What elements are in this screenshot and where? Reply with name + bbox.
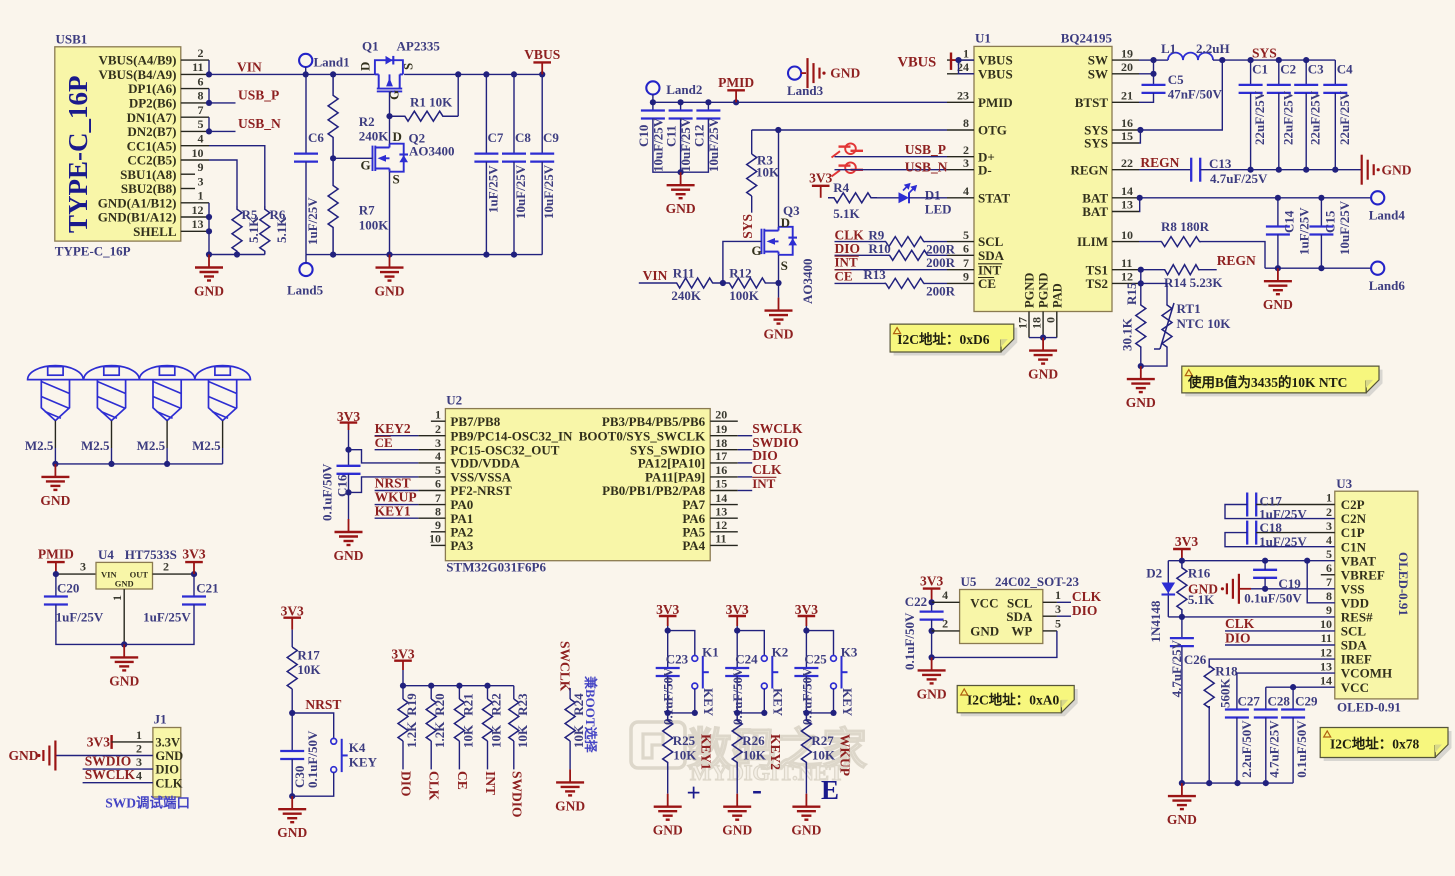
svg-text:KEY: KEY xyxy=(349,755,378,770)
svg-text:1: 1 xyxy=(1055,588,1061,602)
svg-text:3V3: 3V3 xyxy=(726,602,749,617)
svg-text:4: 4 xyxy=(198,132,204,146)
resistor R25 10K xyxy=(663,713,673,770)
wire D1 to STAT xyxy=(877,197,899,199)
svg-text:S: S xyxy=(781,258,788,273)
wire NRST xyxy=(375,490,419,492)
wire Q1 gate to R1 xyxy=(389,92,391,116)
svg-text:10K: 10K xyxy=(297,662,321,677)
ground GND below C16 xyxy=(348,519,350,532)
svg-text:DIO: DIO xyxy=(1225,630,1251,645)
connector USB1 TYPE-C_16P xyxy=(55,47,181,241)
svg-text:3: 3 xyxy=(80,560,86,574)
svg-text:M2.5: M2.5 xyxy=(81,438,110,453)
svg-text:CLK: CLK xyxy=(1072,589,1102,604)
wire U4 GND pin xyxy=(123,589,125,644)
ground GND of USB1 xyxy=(208,255,210,268)
svg-text:R1 10K: R1 10K xyxy=(410,95,453,110)
svg-text:15: 15 xyxy=(715,477,727,491)
ground side at VSS xyxy=(1265,588,1335,590)
capacitor C14 1uF/25V xyxy=(1275,195,1281,201)
connector J1 SWD xyxy=(153,728,181,798)
resistor R26 10K xyxy=(732,713,742,770)
capacitor C22 0.1uF/50V xyxy=(931,602,933,611)
svg-text:VCC: VCC xyxy=(1341,680,1369,695)
svg-text:D: D xyxy=(781,215,790,230)
svg-text:GND: GND xyxy=(194,284,224,299)
svg-text:GND: GND xyxy=(115,579,134,589)
wire USB_P xyxy=(209,102,236,104)
svg-text:R4: R4 xyxy=(833,180,849,195)
resistor R4 5.1K xyxy=(828,193,877,203)
svg-text:L1: L1 xyxy=(1161,41,1176,56)
svg-text:K4: K4 xyxy=(349,740,366,755)
svg-text:WP: WP xyxy=(1011,624,1032,639)
svg-text:VBUS: VBUS xyxy=(898,55,937,71)
svg-text:3: 3 xyxy=(1055,602,1061,616)
svg-text:22: 22 xyxy=(1121,156,1133,170)
svg-text:PAD: PAD xyxy=(1050,283,1064,308)
svg-text:VDD: VDD xyxy=(1341,595,1369,610)
svg-text:C1P: C1P xyxy=(1341,525,1365,540)
svg-text:C7: C7 xyxy=(488,130,504,145)
svg-text:GND: GND xyxy=(764,327,794,342)
svg-text:REGN: REGN xyxy=(1070,162,1108,177)
capacitor C9 10uF/25V xyxy=(539,71,545,77)
wire USB gnd rail xyxy=(209,254,265,256)
svg-text:GND: GND xyxy=(155,749,183,763)
key K2 xyxy=(737,631,764,656)
svg-text:8: 8 xyxy=(963,116,969,130)
svg-text:VIN: VIN xyxy=(643,268,668,283)
wire VCC net xyxy=(1266,686,1335,688)
wire CC2 to R5 xyxy=(209,160,237,206)
svg-text:R19: R19 xyxy=(404,693,419,716)
U1 pin 24 VBUS xyxy=(947,73,974,75)
svg-text:C20: C20 xyxy=(57,581,79,596)
U1 pin 7 INT xyxy=(947,269,974,271)
svg-text:47nF/50V: 47nF/50V xyxy=(1168,87,1223,102)
wire DIO with resistor R10 200R xyxy=(835,254,890,256)
transistor Q1 AP2335 xyxy=(375,56,403,92)
svg-text:18: 18 xyxy=(715,436,727,450)
svg-text:RT1: RT1 xyxy=(1177,301,1201,316)
svg-text:3V3: 3V3 xyxy=(795,602,818,617)
svg-text:PGND: PGND xyxy=(1023,273,1037,308)
svg-text:RES#: RES# xyxy=(1341,610,1373,625)
diode D2 1N4148 xyxy=(1167,561,1169,617)
svg-text:PF2-NRST: PF2-NRST xyxy=(450,483,512,498)
resistor R16 5.1K xyxy=(1177,561,1187,617)
note I2C address 0xD6 xyxy=(894,328,1018,356)
resistor R7 100K xyxy=(328,158,338,254)
svg-text:OTG: OTG xyxy=(978,123,1007,138)
svg-text:D1: D1 xyxy=(925,188,941,203)
svg-text:4: 4 xyxy=(136,769,142,783)
svg-text:3V3: 3V3 xyxy=(809,170,832,185)
svg-text:SW: SW xyxy=(1088,66,1108,81)
resistor R23 10K to SWDIO xyxy=(513,686,515,699)
capacitor C3 22uF/25V xyxy=(1303,57,1309,63)
wire ground rail with Land6 xyxy=(1265,267,1371,269)
svg-text:VCC: VCC xyxy=(970,595,998,610)
svg-text:1uF/25V: 1uF/25V xyxy=(1297,207,1312,255)
ground GND below C22 xyxy=(931,657,933,670)
svg-text:1: 1 xyxy=(963,46,969,60)
wire J1 GND xyxy=(55,755,152,757)
wire BAT to Land4 xyxy=(1139,197,1371,199)
note I2C address 0x78 xyxy=(1324,731,1452,761)
wire VIN divider xyxy=(639,282,677,284)
wire VSS to C16 gnd xyxy=(349,477,419,493)
svg-text:GND: GND xyxy=(1167,812,1197,827)
land Land2 xyxy=(646,81,659,94)
svg-text:GND: GND xyxy=(277,825,307,840)
svg-text:5: 5 xyxy=(1055,617,1061,631)
U1 pin 20 SW xyxy=(1112,73,1139,75)
mounting hole M2.5 #4 xyxy=(195,366,251,380)
svg-text:SHELL: SHELL xyxy=(133,224,177,239)
capacitor C23 0.1uF/50V xyxy=(667,631,669,668)
svg-text:2: 2 xyxy=(136,742,142,756)
svg-text:NRST: NRST xyxy=(305,697,341,712)
transistor Q2 AO3400 xyxy=(373,144,409,172)
wire bottom ground rail xyxy=(306,254,542,256)
svg-text:PB7/PB8: PB7/PB8 xyxy=(450,414,500,429)
svg-text:9: 9 xyxy=(1326,603,1332,617)
wire WKUP xyxy=(375,504,419,506)
svg-text:2.2uH: 2.2uH xyxy=(1196,41,1230,56)
ground GND below U1 xyxy=(1042,338,1044,351)
svg-text:5: 5 xyxy=(435,463,441,477)
svg-text:REGN: REGN xyxy=(1140,155,1179,170)
note NTC B value xyxy=(1185,370,1382,397)
capacitor C25 0.1uF/50V xyxy=(805,631,807,668)
capacitor C16 0.1uF/50V xyxy=(337,465,361,467)
svg-text:3V3: 3V3 xyxy=(920,574,943,589)
wire CLK net xyxy=(738,476,752,478)
svg-text:5: 5 xyxy=(963,228,969,242)
svg-text:R7: R7 xyxy=(359,203,375,218)
watermark xyxy=(631,722,867,785)
capacitor C8 10uF/25V xyxy=(511,71,517,77)
svg-text:7: 7 xyxy=(198,103,204,117)
transistor Q3 AO3400 xyxy=(762,227,798,255)
svg-text:SWCLK: SWCLK xyxy=(558,641,573,692)
svg-text:11: 11 xyxy=(715,532,726,546)
land Land6 xyxy=(1371,262,1384,275)
svg-text:PGND: PGND xyxy=(1037,273,1051,308)
capacitor C10 10uF/25V xyxy=(652,102,654,110)
svg-text:4: 4 xyxy=(942,588,948,602)
wire SYS cap ground rail xyxy=(1200,169,1362,171)
wire CC1 to R6 xyxy=(209,146,265,206)
svg-text:C8: C8 xyxy=(515,130,531,145)
svg-text:C28: C28 xyxy=(1268,694,1291,709)
wire SW pins join xyxy=(1139,59,1154,61)
svg-text:3V3: 3V3 xyxy=(182,547,205,562)
U1 pin 14 BAT xyxy=(1112,197,1139,199)
svg-text:13: 13 xyxy=(1121,198,1133,212)
svg-text:CC2(B5): CC2(B5) xyxy=(127,153,176,168)
svg-text:4: 4 xyxy=(435,449,441,463)
svg-text:SBU1(A8): SBU1(A8) xyxy=(120,167,176,182)
svg-text:AO3400: AO3400 xyxy=(409,143,455,158)
svg-text:Land4: Land4 xyxy=(1369,208,1406,223)
mounting hole M2.5 #3 xyxy=(139,366,195,380)
svg-text:Land1: Land1 xyxy=(314,55,350,70)
power flag 3V3 at U4 xyxy=(193,562,195,574)
svg-text:M2.5: M2.5 xyxy=(25,438,54,453)
wire SYS cap rail top xyxy=(1222,59,1335,61)
svg-text:C1: C1 xyxy=(1252,62,1268,77)
svg-text:R21: R21 xyxy=(460,693,475,715)
jumper net-tie USB_N xyxy=(832,162,864,176)
svg-text:10: 10 xyxy=(1121,228,1133,242)
resistor R17 10K xyxy=(291,630,293,647)
svg-text:SDA: SDA xyxy=(978,248,1005,263)
svg-text:2: 2 xyxy=(163,560,169,574)
svg-text:30.1K: 30.1K xyxy=(1119,317,1134,351)
svg-text:R25: R25 xyxy=(673,733,696,748)
wire VIN net xyxy=(209,73,375,75)
wire Q1 source to VBUS rail xyxy=(404,73,542,75)
svg-text:PA3: PA3 xyxy=(450,538,473,553)
svg-text:6: 6 xyxy=(1326,561,1332,575)
wire SDA DIO xyxy=(1225,644,1335,646)
svg-text:AP2335: AP2335 xyxy=(397,39,441,54)
wire RES# net xyxy=(1168,616,1335,618)
ground GND below C30 xyxy=(291,796,293,809)
svg-text:S: S xyxy=(401,63,416,70)
svg-text:GND(A1/B12): GND(A1/B12) xyxy=(98,195,177,210)
svg-text:R14 5.23K: R14 5.23K xyxy=(1164,275,1223,290)
svg-text:9: 9 xyxy=(963,270,969,284)
svg-text:Q1: Q1 xyxy=(362,39,379,54)
svg-text:3V3: 3V3 xyxy=(391,647,414,662)
svg-text:VIN: VIN xyxy=(237,60,262,75)
power flag VBUS xyxy=(541,62,543,74)
svg-text:Land5: Land5 xyxy=(287,283,324,298)
U1 pin 15 SYS xyxy=(1112,142,1139,144)
svg-text:LED: LED xyxy=(925,202,952,217)
svg-text:5: 5 xyxy=(1326,547,1332,561)
svg-text:KEY: KEY xyxy=(771,688,786,717)
svg-text:R2: R2 xyxy=(359,114,375,129)
capacitor C21 1uF/25V xyxy=(193,574,195,596)
ground GND below C14 xyxy=(1277,268,1279,281)
resistor R12 100K xyxy=(729,278,765,288)
capacitor C1 22uF/25V xyxy=(1248,57,1254,63)
capacitor C12 10uF/25V xyxy=(707,102,709,110)
wire KEY1 xyxy=(375,517,419,519)
wire D- USB_N xyxy=(835,169,948,171)
wire pullup rail xyxy=(403,685,514,687)
svg-text:E: E xyxy=(821,775,839,805)
wire WP loop xyxy=(1043,630,1057,632)
svg-text:2: 2 xyxy=(198,46,204,60)
inductor L1 2.2uH xyxy=(1154,59,1169,61)
svg-text:STAT: STAT xyxy=(978,190,1010,205)
wire SWDIO to J1 xyxy=(83,768,153,770)
svg-text:GND: GND xyxy=(1188,581,1218,596)
svg-text:SWCLK: SWCLK xyxy=(752,421,803,436)
svg-text:11: 11 xyxy=(1121,256,1132,270)
svg-text:NTC 10K: NTC 10K xyxy=(1177,316,1232,331)
svg-text:DP1(A6): DP1(A6) xyxy=(128,81,176,96)
svg-text:23: 23 xyxy=(957,89,969,103)
svg-text:1.2K: 1.2K xyxy=(432,721,447,748)
svg-text:SYS: SYS xyxy=(1252,46,1277,61)
wire pin2 to VIN net xyxy=(208,60,210,74)
svg-text:21: 21 xyxy=(1121,89,1133,103)
svg-text:C23: C23 xyxy=(666,652,689,667)
svg-text:M2.5: M2.5 xyxy=(137,438,166,453)
svg-text:16: 16 xyxy=(715,463,727,477)
svg-text:VBUS(A4/B9): VBUS(A4/B9) xyxy=(98,53,176,68)
thermistor RT1 NTC 10K xyxy=(1166,283,1168,304)
svg-text:14: 14 xyxy=(1121,184,1133,198)
svg-text:4: 4 xyxy=(1326,533,1332,547)
svg-text:R23: R23 xyxy=(515,693,530,716)
wire Q2 drain xyxy=(389,116,391,144)
svg-text:3V3: 3V3 xyxy=(1175,534,1198,549)
U1 pin 10 ILIM xyxy=(1112,241,1139,243)
svg-text:12: 12 xyxy=(1121,270,1133,284)
wire pin6 to USB_P xyxy=(208,89,210,103)
wire KEY2 xyxy=(375,435,419,437)
net NRST node xyxy=(289,710,295,716)
wire 3V3 to VDD and C16 xyxy=(348,430,350,466)
svg-text:9: 9 xyxy=(198,160,204,174)
capacitor C4 22uF/25V xyxy=(1334,60,1336,85)
svg-text:INT: INT xyxy=(483,771,498,795)
svg-text:240K: 240K xyxy=(671,288,702,303)
IC U3 OLED-0.91 xyxy=(1335,491,1418,699)
svg-text:WKUP: WKUP xyxy=(837,734,852,776)
svg-text:GND: GND xyxy=(9,748,39,763)
wire INT net xyxy=(738,490,752,492)
svg-text:USB_P: USB_P xyxy=(905,142,946,157)
svg-text:KEY1: KEY1 xyxy=(699,734,714,770)
svg-text:14: 14 xyxy=(1320,673,1332,687)
jumper net-tie USB_P xyxy=(832,143,864,157)
resistor R1 10K xyxy=(390,111,459,121)
svg-text:19: 19 xyxy=(1121,46,1133,60)
LED D1 xyxy=(899,192,910,203)
svg-text:HT7533S: HT7533S xyxy=(125,547,177,562)
svg-text:KEY2: KEY2 xyxy=(375,421,411,436)
svg-text:兼BOOT选择: 兼BOOT选择 xyxy=(583,676,598,754)
wire key junction xyxy=(737,712,764,714)
wire SCL CLK xyxy=(1225,630,1335,632)
svg-text:SDA: SDA xyxy=(1006,609,1033,624)
ground GND below C11 xyxy=(680,172,682,185)
svg-text:7: 7 xyxy=(435,491,441,505)
svg-text:8: 8 xyxy=(198,89,204,103)
wire pin7 to USB_N xyxy=(208,117,210,131)
svg-text:I2C地址：0xD6: I2C地址：0xD6 xyxy=(897,331,990,347)
capacitor C15 10uF/25V xyxy=(1318,195,1324,201)
U3 pin6 VBREF stub xyxy=(1321,574,1335,576)
svg-text:GND: GND xyxy=(109,673,139,688)
svg-text:22uF/25V: 22uF/25V xyxy=(1280,90,1295,145)
svg-text:C11: C11 xyxy=(664,125,679,147)
svg-text:8: 8 xyxy=(435,504,441,518)
svg-text:SYS: SYS xyxy=(1084,136,1108,151)
svg-text:CLK: CLK xyxy=(155,776,182,790)
svg-text:KEY1: KEY1 xyxy=(375,503,411,518)
svg-text:U2: U2 xyxy=(446,393,462,408)
svg-text:Land2: Land2 xyxy=(666,82,702,97)
wire OTG xyxy=(752,129,947,131)
svg-text:STM32G031F6P6: STM32G031F6P6 xyxy=(446,560,546,575)
svg-text:C12: C12 xyxy=(691,125,706,147)
U1 pin 11 TS1 xyxy=(1112,269,1139,271)
svg-text:4.7uF/25V: 4.7uF/25V xyxy=(1169,639,1184,697)
ground GND below R26 xyxy=(736,794,738,807)
svg-text:2: 2 xyxy=(1326,505,1332,519)
svg-text:7: 7 xyxy=(1326,575,1332,589)
svg-text:2: 2 xyxy=(963,143,969,157)
svg-text:I2C地址：0x78: I2C地址：0x78 xyxy=(1330,736,1420,752)
svg-text:1: 1 xyxy=(435,407,441,421)
svg-text:R8 180R: R8 180R xyxy=(1161,219,1210,234)
svg-text:GND: GND xyxy=(722,823,752,838)
svg-text:10uF/25V: 10uF/25V xyxy=(541,164,556,219)
U1 pin 23 PMID xyxy=(947,101,974,103)
svg-text:8: 8 xyxy=(1326,589,1332,603)
svg-text:1uF/25V: 1uF/25V xyxy=(305,197,320,245)
capacitor C27 2.2uF/50V on VCOMH xyxy=(1237,673,1335,709)
U1 pin 12 TS2 xyxy=(1112,282,1139,284)
ground GND below Q2 xyxy=(389,255,391,268)
svg-text:G: G xyxy=(387,90,402,100)
svg-text:VBREF: VBREF xyxy=(1341,567,1385,582)
svg-text:12: 12 xyxy=(1320,645,1332,659)
svg-text:10K: 10K xyxy=(515,724,530,748)
svg-text:3V3: 3V3 xyxy=(87,734,110,749)
svg-text:PB9/PC14-OSC32_IN: PB9/PC14-OSC32_IN xyxy=(450,428,573,443)
svg-text:USB_N: USB_N xyxy=(238,116,281,131)
svg-text:M2.5: M2.5 xyxy=(192,438,221,453)
wire 3V3 to VCC pin4 xyxy=(932,601,960,603)
svg-text:10K: 10K xyxy=(460,724,475,748)
U1 pin 3 D- xyxy=(947,169,974,171)
svg-text:1uF/25V: 1uF/25V xyxy=(1259,534,1307,549)
svg-text:PB3/PB4/PB5/PB6: PB3/PB4/PB5/PB6 xyxy=(602,414,706,429)
svg-text:0.1uF/50V: 0.1uF/50V xyxy=(320,463,335,521)
svg-text:GND: GND xyxy=(40,493,70,508)
svg-text:100K: 100K xyxy=(359,218,390,233)
svg-text:R11: R11 xyxy=(673,266,695,281)
svg-text:J1: J1 xyxy=(154,712,167,727)
svg-text:0: 0 xyxy=(1043,317,1057,323)
wire Q3 gate to divider xyxy=(723,241,762,283)
svg-text:2: 2 xyxy=(942,617,948,631)
wire key junction xyxy=(806,712,833,714)
svg-text:C5: C5 xyxy=(1168,72,1184,87)
svg-text:PB0/PB1/PB2/PA8: PB0/PB1/PB2/PA8 xyxy=(602,483,706,498)
capacitor C7 1uF/25V xyxy=(483,71,489,77)
land Land3 with ground xyxy=(788,67,801,80)
svg-text:1: 1 xyxy=(1326,491,1332,505)
U1 pin 2 D+ xyxy=(947,156,974,158)
svg-text:1uF/25V: 1uF/25V xyxy=(486,165,501,213)
capacitor C5 47nF/50V xyxy=(1153,74,1155,85)
svg-text:C29: C29 xyxy=(1295,694,1318,709)
U1 pin 6 SDA xyxy=(947,254,974,256)
